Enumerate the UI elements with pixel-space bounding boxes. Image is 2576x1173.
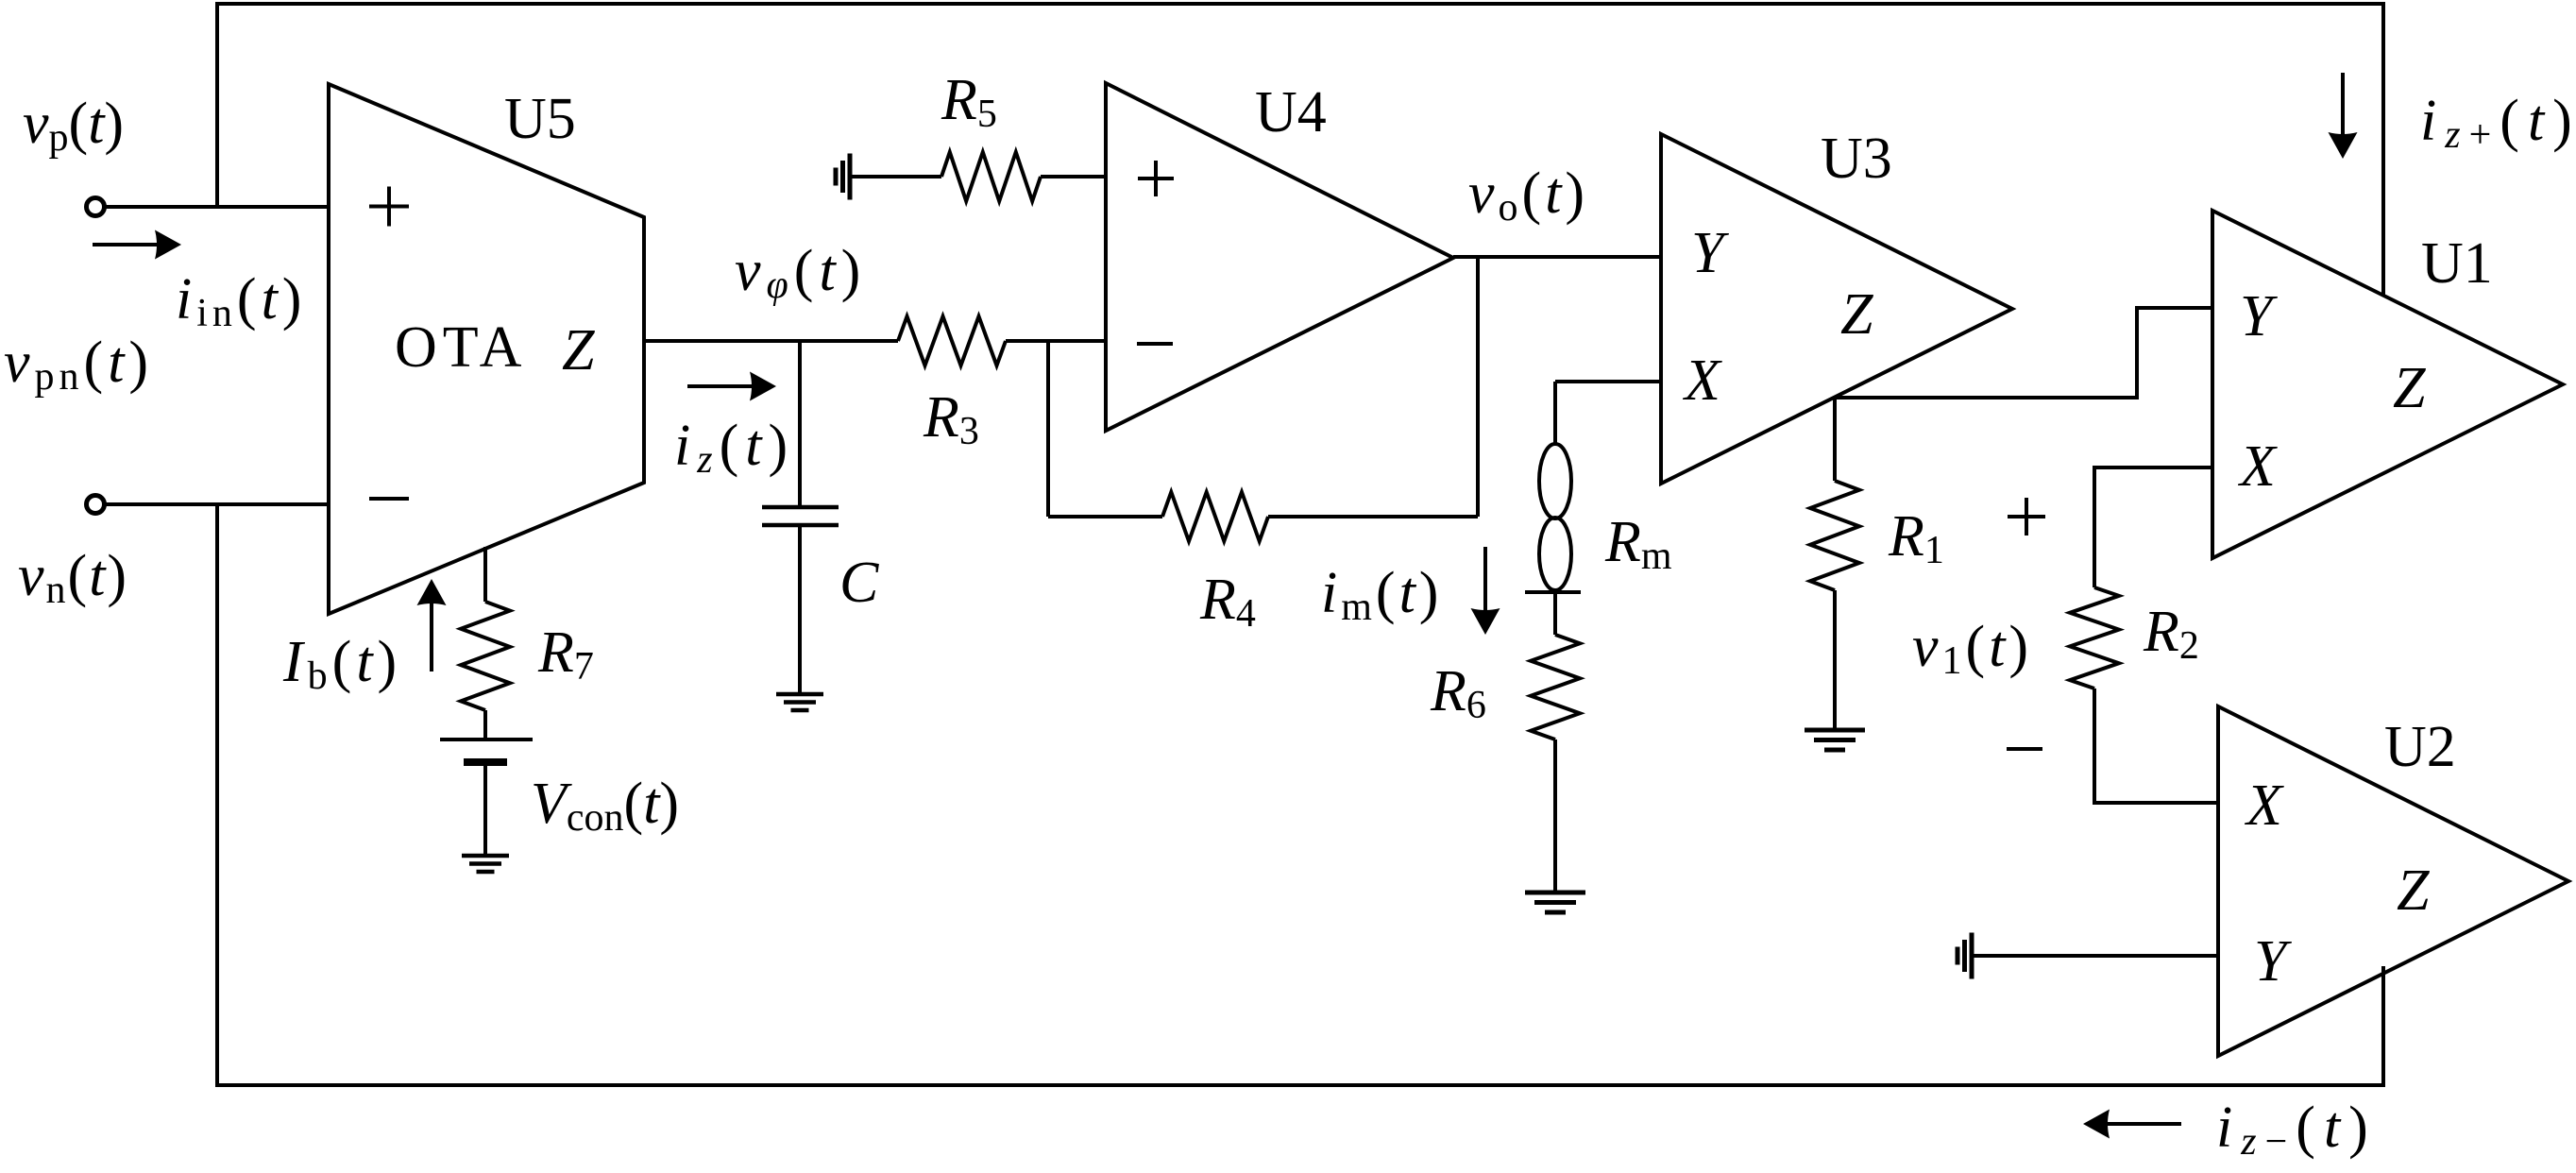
svg-text:U4: U4 bbox=[1255, 80, 1327, 144]
op-amp U5 label bbox=[504, 87, 576, 151]
wire feedback up to node vo bbox=[1476, 257, 1480, 517]
conveyor U2 Y pin label bbox=[2254, 929, 2292, 994]
wire U1 X input down to R2 bbox=[2094, 467, 2212, 587]
wire R3 to U4 - input bbox=[1006, 339, 1106, 343]
wire Rm to U3 X input bbox=[1555, 380, 1661, 383]
op-amp U5 OTA text bbox=[395, 315, 527, 380]
current iz- arrow bbox=[2083, 1110, 2181, 1139]
memristor Rm label bbox=[1604, 510, 1672, 578]
current im label bbox=[1321, 561, 1442, 629]
ground below capacitor C bbox=[776, 694, 823, 710]
op-amp U5 plus input bbox=[369, 187, 409, 227]
svg-text:vφ(t): vφ(t) bbox=[735, 239, 866, 307]
wire battery Vcon to ground bbox=[483, 762, 487, 856]
current iz arrow bbox=[687, 372, 776, 401]
node vp label bbox=[23, 92, 124, 160]
current iz+ label bbox=[2420, 89, 2576, 157]
op-amp U5 OTA body bbox=[329, 84, 644, 614]
wire R1 to ground bbox=[1833, 590, 1837, 730]
wire R6 to ground bbox=[1553, 739, 1557, 892]
conveyor U2 body bbox=[2218, 706, 2568, 1056]
svg-text:U2: U2 bbox=[2384, 715, 2456, 779]
svg-text:Z: Z bbox=[2397, 858, 2430, 923]
svg-text:iz−(t): iz−(t) bbox=[2216, 1096, 2377, 1164]
wire R7 to battery Vcon bbox=[483, 710, 487, 739]
buffer U3 body bbox=[1661, 134, 2012, 484]
node v1 label bbox=[1912, 615, 2032, 683]
current Ib arrow bbox=[417, 579, 447, 671]
svg-text:im(t): im(t) bbox=[1321, 561, 1442, 629]
buffer U3 label bbox=[1821, 127, 1892, 191]
op-amp U4 minus bbox=[1137, 342, 1173, 346]
svg-text:U1: U1 bbox=[2421, 231, 2493, 296]
wire vp terminal to OTA + input bbox=[105, 205, 329, 209]
ground at R5 input bbox=[836, 154, 850, 200]
node vp terminal bbox=[87, 198, 105, 216]
op-amp U5 minus input bbox=[369, 497, 409, 501]
wire Rm to R6 bbox=[1553, 592, 1557, 635]
svg-text:U5: U5 bbox=[504, 87, 576, 151]
svg-text:v1(t): v1(t) bbox=[1912, 615, 2032, 683]
op-amp U4 plus bbox=[1138, 161, 1174, 196]
svg-text:Y: Y bbox=[2240, 284, 2278, 348]
buffer U3 Z pin label bbox=[1840, 282, 1873, 347]
node v1 minus bbox=[2007, 747, 2042, 751]
wire node vphi down to capacitor C bbox=[798, 341, 802, 507]
svg-text:iin(t): iin(t) bbox=[176, 267, 306, 335]
wire vn terminal to OTA - input bbox=[105, 502, 329, 506]
wire capacitor C to ground bbox=[798, 525, 802, 694]
resistor R6 label bbox=[1430, 659, 1486, 727]
resistor R5 bbox=[941, 152, 1041, 201]
svg-text:Z: Z bbox=[1840, 282, 1873, 347]
svg-text:X: X bbox=[2237, 434, 2278, 499]
wire ground to U2 Y input bbox=[1972, 954, 2218, 958]
svg-text:OTA: OTA bbox=[395, 315, 527, 380]
conveyor U2 X pin label bbox=[2244, 773, 2284, 838]
buffer U3 Y pin label bbox=[1691, 221, 1729, 285]
svg-text:vp(t): vp(t) bbox=[23, 92, 124, 160]
resistor R6 bbox=[1531, 635, 1580, 739]
conveyor U1 Y pin label bbox=[2240, 284, 2278, 348]
wire OTA bias pin to R7 bbox=[483, 547, 487, 602]
resistor R1 bbox=[1810, 481, 1859, 590]
svg-text:Z: Z bbox=[2393, 356, 2426, 420]
wire bottom border from vn terminal to U2 Z (iz- path) bbox=[217, 504, 2383, 1085]
resistor R4 label bbox=[1199, 568, 1256, 636]
ground below R6 bbox=[1525, 892, 1585, 912]
svg-text:X: X bbox=[2244, 773, 2284, 838]
resistor R2 bbox=[2070, 587, 2119, 688]
svg-text:U3: U3 bbox=[1821, 127, 1892, 191]
resistor R3 bbox=[898, 316, 1006, 365]
svg-text:Y: Y bbox=[1691, 221, 1729, 285]
node vpn label bbox=[4, 331, 153, 399]
conveyor U1 X pin label bbox=[2237, 434, 2278, 499]
resistor R3 label bbox=[923, 385, 979, 453]
ground at U2 Y input bbox=[1957, 933, 1972, 979]
svg-text:iz(t): iz(t) bbox=[674, 414, 794, 482]
wire OTA Z output to R3 (node vphi) bbox=[644, 339, 898, 343]
conveyor U1 body bbox=[2212, 211, 2563, 558]
svg-text:vo(t): vo(t) bbox=[1468, 161, 1588, 229]
wire X node down to Rm bbox=[1553, 382, 1557, 445]
wire U3 X terminal down to R1 bbox=[1833, 398, 1837, 481]
capacitor C label bbox=[839, 551, 879, 615]
wire U4 - input down to feedback bbox=[1046, 341, 1050, 517]
resistor R5 label bbox=[941, 68, 997, 136]
wire U4 output (node vo) to U3 Y input bbox=[1453, 255, 1661, 259]
current iz+ arrow bbox=[2329, 73, 2358, 159]
conveyor U1 Z pin label bbox=[2393, 356, 2426, 420]
wire feedback to R4 bbox=[1048, 515, 1162, 518]
current im arrow bbox=[1471, 547, 1500, 635]
op-amp U4 label bbox=[1255, 80, 1327, 144]
wire R4 to output leg bbox=[1268, 515, 1478, 518]
ground below R1 bbox=[1805, 730, 1865, 750]
capacitor C bbox=[762, 507, 839, 525]
op-amp U5 Z text bbox=[562, 318, 595, 382]
resistor R1 label bbox=[1888, 504, 1944, 572]
conveyor U2 label bbox=[2384, 715, 2456, 779]
node vn terminal bbox=[87, 496, 105, 514]
conveyor U2 Z pin label bbox=[2397, 858, 2430, 923]
current iz- label bbox=[2216, 1096, 2377, 1164]
battery Vcon bbox=[440, 739, 533, 762]
node vo label bbox=[1468, 161, 1588, 229]
current iin arrow bbox=[93, 230, 181, 260]
node v1 plus bbox=[2008, 498, 2045, 535]
svg-text:Z: Z bbox=[562, 318, 595, 382]
node vphi label bbox=[735, 239, 866, 307]
svg-text:vn(t): vn(t) bbox=[18, 544, 128, 612]
wire R2 to U2 X input (node v1-) bbox=[2094, 688, 2218, 803]
memristor Rm bbox=[1525, 444, 1581, 592]
resistor R7 bbox=[461, 602, 510, 710]
buffer U3 X pin label bbox=[1682, 348, 1722, 413]
svg-text:X: X bbox=[1682, 348, 1722, 413]
current Ib label bbox=[282, 630, 401, 698]
resistor R4 bbox=[1162, 492, 1268, 541]
wire top border from vp terminal to iz+ drop into U1 Z bbox=[217, 4, 2383, 295]
resistor R2 label bbox=[2143, 600, 2199, 668]
current iz label bbox=[674, 414, 794, 482]
resistor R7 label bbox=[537, 620, 594, 688]
svg-text:Ib(t): Ib(t) bbox=[282, 630, 401, 698]
current iin label bbox=[176, 267, 306, 335]
conveyor U1 label bbox=[2421, 231, 2493, 296]
svg-text:Y: Y bbox=[2254, 929, 2292, 994]
battery Vcon label bbox=[531, 772, 679, 840]
op-amp U4 body bbox=[1106, 83, 1453, 431]
wire U3 X terminal to U1 Y input (node v1+) bbox=[1835, 308, 2212, 398]
wire ground to R5 bbox=[850, 175, 941, 178]
svg-text:C: C bbox=[839, 551, 879, 615]
ground below battery Vcon bbox=[462, 856, 509, 872]
wire R5 to U4 + input bbox=[1041, 175, 1106, 178]
node vn label bbox=[18, 544, 128, 612]
